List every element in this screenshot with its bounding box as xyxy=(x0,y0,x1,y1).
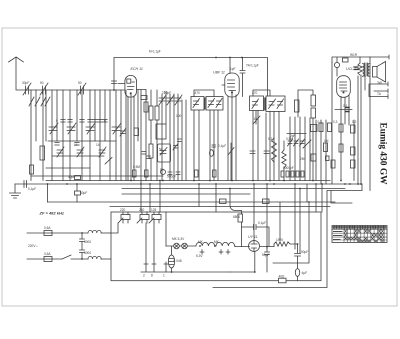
resistor R8 (zigzag) xyxy=(358,57,362,75)
svg-text:0,6A: 0,6A xyxy=(44,252,51,256)
svg-text:14: 14 xyxy=(74,143,78,147)
rectifier tube UY 11 xyxy=(249,241,260,252)
svg-text:240: 240 xyxy=(139,208,145,212)
capacitor C15 (grid) xyxy=(240,58,245,97)
wire: bus y=206.5 xyxy=(110,206,330,208)
resistor R7 xyxy=(343,58,349,62)
svg-text:470: 470 xyxy=(252,91,258,95)
svg-text:220V∼: 220V∼ xyxy=(28,244,38,248)
svg-text:TA 0,1µF: TA 0,1µF xyxy=(246,64,259,68)
resistor R2 xyxy=(141,96,147,100)
tube UBF 11 xyxy=(225,73,239,97)
capacitor C2 (series trimmer on antenna bus) xyxy=(40,83,48,95)
svg-text:0,3: 0,3 xyxy=(333,120,338,124)
oscillator coil L3 xyxy=(155,106,159,120)
wires: pickup terminals xyxy=(369,82,388,99)
resistor R21 xyxy=(195,170,199,177)
capacitor C25 xyxy=(48,184,81,202)
voltage table xyxy=(332,226,387,243)
power unit enclosure xyxy=(111,212,321,281)
AC mains input line L xyxy=(27,232,88,234)
wire: main bus y=180.5 xyxy=(46,180,330,182)
svg-text:1500: 1500 xyxy=(276,238,283,242)
text: IF frequency note xyxy=(39,210,64,215)
trimmer capacitor C10 xyxy=(99,147,106,157)
variable capacitor C5 (tuning gang) xyxy=(67,123,76,134)
svg-text:1M: 1M xyxy=(324,139,329,143)
resistor R17 xyxy=(230,263,300,281)
svg-text:50: 50 xyxy=(160,168,164,172)
wire: sub-bus y=168 xyxy=(46,167,90,169)
wire: ground bus y=184 xyxy=(15,183,362,185)
tube ECH 11 (triode-hexode converter) xyxy=(118,75,146,97)
capacitor C45 xyxy=(326,156,330,161)
svg-text:50µF: 50µF xyxy=(262,253,269,257)
resistor R6 xyxy=(311,108,316,118)
wires: oscillator verticals xyxy=(151,90,186,181)
svg-text:0,6A: 0,6A xyxy=(44,226,51,230)
band switch S1 contacts xyxy=(29,97,50,106)
capacitor C32 xyxy=(264,151,269,154)
switch S3 (AGC arrow) xyxy=(228,143,234,181)
mains filter coil L7 xyxy=(88,230,111,233)
wire: top right bus y=57 xyxy=(332,55,389,62)
svg-text:2: 2 xyxy=(143,274,145,278)
fuse F3 xyxy=(44,231,52,236)
trimmer capacitor C9 xyxy=(77,147,84,157)
capacitor C36 xyxy=(288,139,293,146)
capacitor C37 xyxy=(294,139,299,146)
resistor R25 xyxy=(328,123,332,132)
svg-text:50µF: 50µF xyxy=(80,191,87,195)
resistor R9 xyxy=(339,124,343,132)
wire: sub-bus y=176 xyxy=(31,175,163,177)
capacitor C34 xyxy=(176,172,180,175)
svg-text:0,1: 0,1 xyxy=(268,137,273,141)
svg-text:M 0,1µF: M 0,1µF xyxy=(149,50,161,54)
wires: verticals into power unit xyxy=(141,181,316,254)
svg-text:UCL 11: UCL 11 xyxy=(346,67,358,71)
resistor R12 xyxy=(351,147,356,155)
svg-text:1: 1 xyxy=(163,274,165,278)
capacitor C24 xyxy=(75,176,81,180)
trimmer capacitor C8 xyxy=(57,147,64,157)
wire: bus y=202 xyxy=(48,201,336,203)
capacitor C39 (trimmer) xyxy=(120,128,126,136)
fuse F4 xyxy=(44,257,52,262)
svg-text:100: 100 xyxy=(176,114,182,118)
capacitor C31 xyxy=(250,151,255,154)
dial lamp LA2 xyxy=(174,243,180,249)
ground xyxy=(10,184,21,198)
svg-text:125: 125 xyxy=(151,208,157,212)
wires: ECH11 pins xyxy=(128,96,134,181)
IF transformer T1 xyxy=(191,97,223,111)
svg-text:3W: 3W xyxy=(377,81,382,85)
wires: heater chain pins xyxy=(141,212,168,272)
resistor R18 (on bottom rail) xyxy=(279,278,287,283)
resistor R26 xyxy=(324,143,328,152)
svg-text:0,5M: 0,5M xyxy=(133,165,140,169)
mains filter coil L8 xyxy=(88,256,111,259)
svg-text:40Ω: 40Ω xyxy=(279,275,286,279)
lamp LA1 xyxy=(334,62,339,67)
capacitor C40 xyxy=(142,152,146,155)
antenna xyxy=(9,57,24,90)
wire: sub-bus y=156 xyxy=(52,155,104,157)
switch S4 (wave change) xyxy=(105,158,112,165)
trimmer capacitor C12 xyxy=(167,95,174,105)
coil L1 (antenna coil) xyxy=(40,146,45,160)
voltage selector plug 220V xyxy=(121,212,130,223)
resistor R24 xyxy=(319,123,323,132)
capacitor C26 xyxy=(80,233,85,259)
oscillator trimmer loop xyxy=(158,144,171,162)
resistor R23 xyxy=(295,100,300,112)
loudspeaker LS1 xyxy=(373,62,386,83)
oscillator coil L4 xyxy=(149,144,153,158)
heater coil L10 xyxy=(187,242,235,254)
svg-text:50: 50 xyxy=(78,81,82,85)
capacitor C22 xyxy=(346,108,350,112)
capacitor row on RF verticals xyxy=(61,120,107,123)
svg-text:0,1µF: 0,1µF xyxy=(258,221,266,225)
capacitor C14 (padder, round) xyxy=(161,170,166,175)
coil L5 with core xyxy=(156,124,166,139)
capacitor C35 (grid, ECH11) xyxy=(112,81,117,84)
capacitor C33 xyxy=(168,172,172,175)
resistor R1 xyxy=(30,165,34,174)
svg-text:30pF: 30pF xyxy=(22,81,29,85)
wires: IF2 connections xyxy=(253,90,279,181)
potentiometer P2 xyxy=(303,140,311,148)
svg-text:100: 100 xyxy=(162,91,168,95)
svg-text:1pF: 1pF xyxy=(230,67,236,71)
resistor R4 (zigzag) xyxy=(272,138,277,162)
resistor R22 xyxy=(213,170,217,177)
resistor R11 xyxy=(339,144,343,152)
svg-text:0,2: 0,2 xyxy=(352,120,357,124)
svg-text:MK 6,3V: MK 6,3V xyxy=(172,237,185,241)
wires: RF section verticals xyxy=(31,90,126,181)
svg-text:0,1: 0,1 xyxy=(343,104,348,108)
switch S2 (mains) xyxy=(62,255,71,259)
voltage selector plug 240V xyxy=(140,212,149,223)
resistor R5 xyxy=(311,95,316,106)
svg-text:4µF: 4µF xyxy=(302,271,308,275)
capacitor C30 (oval) xyxy=(210,145,216,156)
wire: bus y=188.5 xyxy=(122,188,345,190)
resistor R19 xyxy=(133,170,137,177)
wire: AF sub-bus xyxy=(287,133,306,135)
component value labels xyxy=(22,50,382,279)
capacitor C44 xyxy=(354,67,358,70)
IF transformer T2 xyxy=(250,96,286,112)
svg-text:50µF: 50µF xyxy=(68,175,75,179)
resistor R3 xyxy=(144,102,148,112)
electrolytic capacitor C29 xyxy=(295,244,301,263)
svg-text:50: 50 xyxy=(40,81,44,85)
svg-text:ZF = 482 kHz: ZF = 482 kHz xyxy=(39,210,64,215)
capacitor C16 xyxy=(311,125,318,132)
potentiometer P1 (volume) xyxy=(253,111,260,124)
wire: bus y=194 xyxy=(122,193,250,195)
svg-text:0,1µF: 0,1µF xyxy=(28,187,36,191)
svg-text:220: 220 xyxy=(120,208,126,212)
variable capacitor C7 (tuning gang) xyxy=(112,123,121,134)
dial lamp LA3 xyxy=(182,243,188,249)
barretter U048 xyxy=(168,255,174,268)
svg-text:0,1µF: 0,1µF xyxy=(218,144,226,148)
resistor R16 (smoothing, zigzag) xyxy=(274,242,298,247)
capacitor bank C17-C21 xyxy=(281,171,304,177)
capacitor C41 xyxy=(147,156,151,159)
voltage selector plug 125V xyxy=(152,212,161,223)
capacitor C27 xyxy=(242,222,270,247)
svg-text:0,1: 0,1 xyxy=(318,120,323,124)
fuse F2 xyxy=(263,199,270,204)
wire: staircase to bottom right xyxy=(213,184,362,288)
electrolytic capacitor C28 xyxy=(265,246,270,272)
svg-text:10: 10 xyxy=(254,117,258,121)
svg-text:9: 9 xyxy=(56,119,58,123)
wire: x=146 vertical xyxy=(141,90,146,181)
wires: lamp chain xyxy=(166,246,230,272)
capacitor C38 xyxy=(300,139,305,146)
resistor R14 xyxy=(351,160,356,168)
svg-text:ECH 11: ECH 11 xyxy=(131,67,143,71)
trimmer capacitor C11 xyxy=(159,95,166,105)
svg-text:5000: 5000 xyxy=(84,251,91,255)
wires: IF1 connections xyxy=(194,90,218,181)
svg-text:5000: 5000 xyxy=(84,240,91,244)
svg-text:UBF 11: UBF 11 xyxy=(213,71,225,75)
capacitor C1 (series trimmer on antenna bus) xyxy=(23,83,31,95)
output transformer T3 xyxy=(363,63,370,76)
svg-text:8: 8 xyxy=(151,274,153,278)
variable capacitor C4 (tuning gang) xyxy=(49,123,58,134)
svg-text:U 048: U 048 xyxy=(173,259,182,263)
wire: top HT bus y=57.5 xyxy=(114,58,268,97)
wires: selector connections xyxy=(111,218,154,233)
capacitor C42 xyxy=(178,139,182,142)
wires: UY11 circuit xyxy=(235,247,274,272)
svg-text:Eumig 430 GW: Eumig 430 GW xyxy=(378,123,388,186)
wire: sub-bus y=141 xyxy=(48,140,116,142)
resistor R13 xyxy=(331,160,335,168)
resistor R27 xyxy=(134,128,139,136)
resistor R10 xyxy=(351,125,356,133)
capacitor C23 xyxy=(24,181,27,188)
wires: detector verticals xyxy=(266,113,326,184)
wire: x=138 vertical xyxy=(137,90,139,141)
svg-text:2M: 2M xyxy=(300,157,305,161)
tube UCL 11 (output pentode) xyxy=(337,76,351,98)
wires: UBF11 pins xyxy=(222,85,236,181)
fuse F1 xyxy=(220,199,227,204)
wire: HT to set xyxy=(273,202,309,263)
table entries xyxy=(345,230,384,242)
svg-text:W1R: W1R xyxy=(350,53,358,57)
svg-text:50µF: 50µF xyxy=(301,250,308,254)
wire: antenna input bus y=90 xyxy=(17,89,125,91)
resistor R15 xyxy=(238,214,243,222)
svg-text:6: 6 xyxy=(104,119,106,123)
capacitor C43 (trimmer) xyxy=(173,144,178,151)
choke L6 xyxy=(282,141,286,181)
svg-text:50: 50 xyxy=(159,148,163,152)
title Eumig 430 GW (rotated) xyxy=(378,123,388,186)
svg-text:UY 11: UY 11 xyxy=(248,235,258,239)
resistor R28 xyxy=(311,154,316,161)
capacitor marks y=141 xyxy=(55,143,79,146)
svg-text:5000pF: 5000pF xyxy=(283,166,294,170)
svg-text:2pF: 2pF xyxy=(290,134,296,138)
svg-text:6,3V: 6,3V xyxy=(196,254,203,258)
capacitor C3 (series trimmer on antenna bus) xyxy=(78,83,86,95)
oscillator coil L2 xyxy=(149,106,153,120)
AC mains input line N xyxy=(27,258,88,260)
svg-text:6800: 6800 xyxy=(233,215,240,219)
resistor R20 xyxy=(145,170,149,177)
variable capacitor C6 (tuning gang) xyxy=(86,123,95,134)
wires: UCL11 pins and right section verticals xyxy=(332,57,370,191)
svg-text:500pF: 500pF xyxy=(167,175,176,179)
trimmer capacitor C13 xyxy=(175,95,182,105)
wire: x=313 vertical xyxy=(298,90,313,181)
svg-text:470: 470 xyxy=(195,91,201,95)
heater coil L9 xyxy=(196,242,215,246)
svg-text:14: 14 xyxy=(96,143,100,147)
